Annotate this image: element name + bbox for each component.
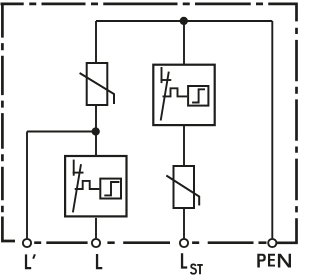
label L': [25, 254, 35, 269]
varistor V2 (LST branch): [166, 166, 199, 208]
terminal L: [92, 239, 100, 247]
junction A (top bus / SG2 branch): [180, 17, 188, 25]
junction B (V1 / L' / SG1): [92, 127, 100, 135]
label LST: [181, 253, 203, 274]
enclosure border bottom-right corner to PEN terminal: [277, 218, 297, 243]
wire: V2 bottom lead to terminal LST: [183, 209, 185, 239]
enclosure border bottom-left corner to L' terminal: [2, 217, 15, 242]
varistor V1 (upper left branch): [80, 63, 114, 105]
wire: top bus from V1 branch to PEN branch: [96, 20, 272, 22]
wire: L' branch drop: [26, 132, 28, 239]
label PEN: [257, 254, 291, 268]
enclosure border left (dash-dot): [1, 3, 4, 213]
wire: SG2 top lead from junction A: [183, 21, 185, 64]
label L: [96, 254, 102, 269]
terminal LST: [180, 239, 188, 247]
triggered spark gap SG2 (upper, LST branch): [153, 65, 214, 125]
wire: V1 bottom lead to junction B: [95, 106, 97, 132]
wire: SG1 top lead: [95, 132, 97, 156]
triggered spark gap SG1 (lower, L branch): [65, 156, 126, 216]
enclosure border top (dash-dot): [1, 3, 264, 6]
wire: SG2 to V2 lead: [183, 126, 185, 166]
terminal L': [23, 239, 31, 247]
wire: PEN branch drop: [271, 21, 273, 238]
wire: junction B horizontal to L' branch: [27, 131, 96, 133]
wire: SG1 bottom lead to terminal L: [95, 218, 97, 238]
enclosure border bottom (dash-dot segments between terminals): [34, 241, 266, 244]
enclosure border right (dash-dot): [295, 28, 298, 213]
wire: V1 top lead: [95, 21, 97, 63]
enclosure border top-right corner: [268, 4, 296, 22]
terminal PEN: [268, 239, 276, 247]
